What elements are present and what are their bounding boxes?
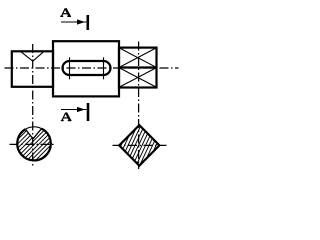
main horizontal centerline (shaft axis): [5, 67, 179, 69]
square end (front view): [119, 48, 157, 88]
section diamond horizontal centerline: [113, 144, 167, 146]
vertical centerline through left journal and section circle: [32, 44, 34, 167]
cutting-plane arrow (bottom), shaft: [61, 109, 87, 111]
central block (front view): [53, 41, 119, 96]
cutting-plane arrow (top), shaft: [61, 21, 86, 23]
slot left arc centerline tick: [69, 57, 71, 79]
cutting-plane arrow (top), head: [77, 19, 85, 24]
section circle horizontal centerline: [10, 143, 57, 145]
section circle hatching: [0, 122, 91, 166]
section label A (bottom): [61, 113, 72, 121]
section diamond hatching: [106, 120, 172, 171]
square end middle edge: [119, 66, 157, 68]
V-notch left edge: [25, 129, 33, 139]
flat-surface diagonal (upper face, up-right): [120, 48, 157, 67]
oblong slot in central block: [63, 61, 111, 75]
cutting-plane tick (top): [87, 15, 90, 30]
section diamond outline: [119, 125, 159, 166]
left cylindrical journal (front view): [12, 51, 53, 87]
cutting-plane arrow (bottom), head: [77, 107, 85, 112]
flat-surface diagonal (lower face, up-right): [120, 68, 157, 87]
flat-surface diagonal (lower face, down-right): [120, 68, 157, 87]
V-notch of section circle (unhatched groove): [25, 127, 41, 139]
section circle outline (thin arc across notch opening): [25, 127, 41, 129]
section label A (top): [60, 8, 71, 16]
V-notch right edge: [33, 129, 42, 139]
vertical centerline through square end and section diamond: [138, 42, 140, 170]
cutting-plane tick (bottom): [87, 103, 90, 121]
V-groove on left journal: [21, 52, 44, 61]
slot right arc centerline tick: [103, 57, 105, 79]
section circle outline (thick arc around body): [17, 129, 51, 161]
flat-surface diagonal (upper face, down-right): [120, 48, 157, 67]
